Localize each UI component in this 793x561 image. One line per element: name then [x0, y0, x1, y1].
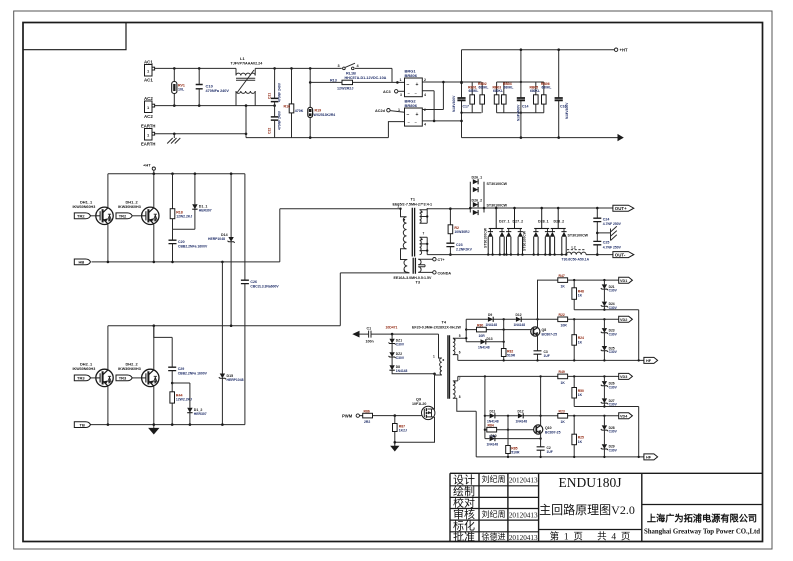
wire output plus rail — [450, 207, 613, 210]
terminal HF2 — [644, 454, 658, 460]
wire AC neutral N — [155, 105, 246, 107]
inductor L2 — [562, 245, 590, 261]
svg-text:C1: C1 — [367, 327, 372, 331]
node C25 bottom — [596, 253, 599, 256]
node bot-corner — [638, 359, 640, 361]
svg-text:IKW30N60H3: IKW30N60H3 — [73, 367, 96, 371]
svg-text:AC3: AC3 — [383, 90, 391, 94]
svg-text:D27_2: D27_2 — [513, 220, 524, 224]
node railB-R24 — [573, 318, 575, 320]
relay RL1B switch — [338, 63, 387, 80]
revision box top-left — [23, 23, 126, 50]
wire Q10 collector up — [540, 376, 542, 425]
wire HT- bottom rail — [462, 137, 618, 139]
node L-C10 — [198, 67, 201, 70]
connector AC1 — [144, 59, 155, 82]
svg-text:+HT: +HT — [143, 163, 151, 168]
svg-text:DH2_1: DH2_1 — [80, 361, 93, 366]
svg-text:1N4148: 1N4148 — [516, 419, 528, 423]
svg-text:1K: 1K — [578, 393, 583, 397]
capacitor C14 column — [517, 50, 529, 138]
node D26 right — [483, 207, 486, 210]
wire BRG plus outputs — [422, 82, 461, 110]
transformer T1 — [393, 197, 433, 260]
bus entry arrow — [352, 331, 359, 338]
resistor R47 — [558, 274, 619, 289]
svg-text:C26: C26 — [250, 280, 257, 284]
svg-text:CGNDA: CGNDA — [438, 272, 452, 276]
svg-text:ENDU180J: ENDU180J — [559, 475, 622, 490]
resistor RB03 — [493, 82, 503, 113]
resistor RB01 — [468, 82, 478, 113]
svg-text:N.MV400V: N.MV400V — [452, 95, 456, 112]
svg-text:CBB2.2NFa 1600V: CBB2.2NFa 1600V — [178, 372, 208, 376]
svg-text:R49: R49 — [559, 370, 565, 374]
svg-text:−: − — [407, 112, 410, 118]
node C24 top — [596, 207, 599, 210]
svg-text:10R: 10R — [561, 324, 568, 328]
svg-text:10F1L20: 10F1L20 — [412, 402, 426, 406]
wire upper HT+ rail — [108, 173, 245, 175]
node bus-R80 — [465, 328, 467, 330]
node bot2-R25 — [573, 456, 575, 458]
resistor R82 — [501, 319, 515, 360]
capacitor C26 — [241, 174, 280, 425]
svg-text:R47: R47 — [559, 274, 565, 278]
terminal OUT+ — [613, 205, 634, 211]
node source-ground — [394, 441, 397, 444]
svg-text:470NF 240V: 470NF 240V — [278, 82, 282, 102]
node midrail2-D27z — [603, 405, 605, 407]
wire RB05-RB06 pair ties — [521, 82, 544, 113]
svg-text:1K: 1K — [578, 294, 583, 298]
node rail-D27_2 — [513, 207, 516, 210]
resistor R48 — [572, 280, 584, 310]
node bus-w5 — [465, 337, 467, 339]
svg-text:1: 1 — [404, 269, 406, 273]
resistor R87 — [393, 416, 408, 443]
wire Q8 emitter down — [537, 336, 539, 361]
svg-text:680KL: 680KL — [479, 85, 489, 89]
svg-text:C30V: C30V — [609, 306, 618, 310]
svg-text:D15: D15 — [227, 374, 234, 378]
svg-text:ST30100CW: ST30100CW — [523, 230, 527, 251]
svg-text:ST30100CW: ST30100CW — [487, 204, 508, 208]
svg-text:C21: C21 — [268, 93, 272, 99]
svg-text:CBB2.2NFa 1600V: CBB2.2NFa 1600V — [178, 245, 208, 249]
node R84-R85 — [507, 429, 509, 431]
node TB-DH2_1 — [107, 423, 110, 426]
node railC-R50 — [573, 375, 575, 377]
capacitor C10 — [196, 68, 230, 105]
svg-text:1N4148: 1N4148 — [487, 442, 499, 446]
svg-text:C20: C20 — [178, 240, 185, 244]
wire N continuation down — [245, 106, 247, 134]
wire AC line L — [155, 67, 236, 69]
svg-text:C30V: C30V — [609, 430, 618, 434]
svg-text:1: 1 — [433, 354, 435, 358]
svg-text:100n: 100n — [366, 340, 374, 344]
svg-text:R19: R19 — [315, 109, 322, 113]
svg-text:2: 2 — [424, 108, 426, 112]
svg-text:+HT: +HT — [620, 48, 628, 53]
wire HB rail — [92, 209, 401, 262]
svg-text:VD3: VD3 — [620, 375, 627, 379]
svg-text:C17: C17 — [463, 105, 469, 109]
ground symbol earth — [167, 134, 180, 144]
wire RB03-RB04 pair ties — [497, 82, 521, 113]
svg-text:R86: R86 — [364, 409, 370, 413]
node D11-D12b — [507, 415, 509, 417]
svg-text:HERP1048: HERP1048 — [227, 378, 244, 382]
svg-text:HER307: HER307 — [194, 412, 207, 416]
wire ch2 input bus — [484, 376, 486, 438]
zener D24 — [601, 289, 618, 310]
svg-text:VD1: VD1 — [620, 279, 627, 283]
svg-text:L2: L2 — [572, 245, 576, 249]
node D12b-Q10 — [539, 415, 541, 417]
svg-text:HHC57A-D1-12VDC-10A: HHC57A-D1-12VDC-10A — [345, 76, 387, 80]
resistor R22 — [558, 313, 619, 328]
svg-text:1N4148: 1N4148 — [486, 323, 498, 327]
svg-text:D28_1: D28_1 — [538, 220, 549, 224]
node HB-DH1_1 — [107, 261, 110, 264]
svg-text:T30.6C50-A50.1A: T30.6C50-A50.1A — [562, 258, 590, 262]
svg-text:EARTH: EARTH — [141, 123, 155, 128]
zener D29z — [601, 430, 618, 457]
resistor R16 — [284, 68, 304, 137]
node railD-D28z — [603, 415, 605, 417]
svg-text:20120413: 20120413 — [509, 511, 538, 519]
diode D12b — [516, 410, 558, 424]
svg-text:10L: 10L — [178, 88, 185, 92]
zener D28z — [601, 416, 618, 434]
node railC-D26z — [603, 375, 605, 377]
terminal VD1 — [619, 277, 633, 283]
zener D27z — [601, 386, 618, 407]
T4 primary — [439, 334, 442, 358]
diode D1_1 — [192, 174, 212, 230]
svg-text:1K: 1K — [578, 440, 583, 444]
connector EARTH — [141, 123, 155, 146]
resistor R50 — [572, 376, 584, 406]
diode D1_2 — [187, 383, 207, 425]
wire L after choke — [255, 68, 392, 82]
svg-text:470NF 240V: 470NF 240V — [278, 110, 282, 130]
capacitor C22 — [268, 102, 282, 138]
capacitor C17 column — [452, 50, 469, 138]
node railC-Q10 — [539, 375, 541, 377]
svg-text:HER307: HER307 — [199, 209, 212, 213]
svg-text:Q9: Q9 — [416, 397, 421, 401]
wire ch1 bottom rail — [458, 359, 644, 361]
svg-text:C30V: C30V — [609, 289, 618, 293]
terminal +HT upper — [143, 163, 155, 174]
svg-text:1UF: 1UF — [547, 450, 553, 454]
node TB-D15 — [221, 423, 224, 426]
node R80-R82 — [503, 328, 505, 330]
svg-text:TJFVP7IAAA02.24: TJFVP7IAAA02.24 — [231, 62, 264, 66]
wire TB bottom rail — [90, 424, 245, 426]
svg-text:2.2NF2KV: 2.2NF2KV — [456, 248, 473, 252]
svg-text:10D471: 10D471 — [386, 326, 398, 330]
transistor DH1_2 — [118, 174, 159, 262]
wire N to BRG2 — [388, 122, 404, 138]
svg-text:1UF: 1UF — [544, 354, 550, 358]
resistor R49 — [558, 370, 619, 385]
node L-RV1 — [173, 67, 176, 70]
svg-text:1: 1 — [400, 78, 402, 82]
wire Q10 emitter down — [540, 434, 542, 457]
svg-text:校对: 校对 — [453, 496, 475, 510]
wire output minus rail — [427, 254, 613, 256]
node rail-DH1_2 — [153, 172, 156, 175]
node rail-D27_1 — [495, 207, 498, 210]
svg-text:6: 6 — [459, 350, 461, 354]
resistor R23 — [558, 410, 619, 425]
node C24-C25 mid — [596, 232, 599, 235]
svg-text:TR3: TR3 — [119, 376, 127, 381]
svg-text:2: 2 — [398, 205, 400, 209]
svg-text:HF: HF — [646, 456, 652, 460]
terminal PWM — [342, 414, 359, 419]
svg-text:DH2_2: DH2_2 — [126, 361, 139, 366]
chassis ground symbol — [597, 226, 617, 240]
zener D26z — [601, 376, 618, 389]
capacitor C20 — [169, 229, 208, 262]
resistor R44 — [170, 383, 192, 425]
node TB-DH2_2 — [153, 423, 156, 426]
wire ch2 rail C — [458, 375, 558, 377]
node bot2-R85 — [507, 456, 509, 458]
node railA-R48 — [573, 279, 575, 281]
svg-text:D26_1: D26_1 — [472, 176, 483, 180]
node C29-R44 — [171, 382, 174, 385]
svg-text:3: 3 — [338, 64, 340, 68]
svg-text:C30V: C30V — [609, 385, 618, 389]
svg-text:PWM: PWM — [342, 414, 353, 419]
svg-text:D9: D9 — [488, 313, 492, 317]
dual diode D28_2 — [550, 208, 589, 255]
node bot-C3 — [536, 359, 538, 361]
node bot-R82 — [503, 359, 505, 361]
svg-text:HB: HB — [79, 260, 85, 265]
node midrail-DH2_2 — [153, 324, 156, 327]
wire R44-D1_2 tie — [172, 382, 190, 384]
title block row labels — [453, 473, 475, 543]
svg-text:EARTH: EARTH — [141, 142, 155, 147]
wire Q8 collector up — [538, 280, 558, 327]
resistor RB05 — [530, 82, 540, 113]
diode D8 — [389, 357, 434, 374]
terminal VD4 — [619, 413, 633, 419]
svg-text:BC807-25: BC807-25 — [545, 430, 561, 434]
terminal +HT — [614, 48, 628, 53]
svg-text:IKW30N60H3: IKW30N60H3 — [118, 205, 141, 209]
svg-text:+: + — [416, 82, 419, 88]
node N-RV1 — [173, 104, 176, 107]
terminal TR2 gate1 — [74, 213, 90, 219]
svg-text:C30V: C30V — [609, 449, 618, 453]
svg-text:BR806: BR806 — [405, 103, 418, 108]
node railA-D21 — [603, 279, 605, 281]
svg-text:刘纪周: 刘纪周 — [482, 509, 506, 519]
wire C29 branch — [154, 326, 172, 338]
wire BRG minus outputs — [422, 91, 461, 121]
node D9-D12 — [503, 318, 505, 320]
svg-text:680KL: 680KL — [469, 89, 479, 93]
svg-text:VD4: VD4 — [620, 415, 628, 419]
node earth-gnd — [173, 133, 176, 136]
diode D9 — [466, 313, 516, 327]
svg-text:BR806: BR806 — [405, 73, 418, 78]
svg-text:D10: D10 — [491, 434, 497, 438]
svg-text:C24: C24 — [603, 218, 610, 222]
svg-text:1K: 1K — [578, 340, 583, 344]
zener DZ2 — [389, 344, 405, 360]
connector AC2 — [144, 96, 155, 119]
svg-text:680KL: 680KL — [542, 85, 552, 89]
svg-text:刘纪周: 刘纪周 — [482, 474, 506, 484]
svg-text:1K2J: 1K2J — [399, 429, 407, 433]
node midrail-D24 — [603, 309, 605, 311]
node L-C21 — [273, 67, 276, 70]
svg-text:TR2: TR2 — [119, 214, 127, 219]
resistor R86 — [360, 409, 422, 424]
ground symbol aux — [391, 442, 398, 450]
svg-text:C22: C22 — [268, 128, 272, 134]
svg-text:D26_2: D26_2 — [472, 198, 483, 202]
node bot2-C2 — [539, 456, 541, 458]
node rail-R18 — [171, 172, 174, 175]
thermistor R19 — [308, 68, 335, 137]
svg-text:IKW30N60H3: IKW30N60H3 — [118, 367, 141, 371]
transformer T4 — [412, 320, 476, 457]
node HB-DH1_2 — [153, 261, 156, 264]
svg-text:OUT-: OUT- — [615, 252, 626, 257]
svg-text:EF20-0.9MH-2X28X2X-0H.2W: EF20-0.9MH-2X28X2X-0H.2W — [412, 325, 462, 329]
node L-R13 — [309, 81, 312, 84]
transistor Q10 — [534, 425, 561, 435]
node TB-R44 — [171, 423, 174, 426]
wire ch2 bottom rail — [476, 456, 644, 458]
svg-text:4.7NF 250V: 4.7NF 250V — [603, 222, 622, 226]
svg-text:C25: C25 — [603, 241, 610, 245]
capacitor C24 — [593, 208, 621, 233]
node bot-D25 — [603, 359, 605, 361]
node rail-D14 — [230, 172, 233, 175]
svg-text:4: 4 — [424, 123, 426, 127]
svg-text:680KL: 680KL — [504, 85, 514, 89]
wire R18-D1_1 tie — [173, 228, 195, 230]
svg-text:20120413: 20120413 — [509, 534, 538, 542]
node rail-D1_1 — [194, 172, 197, 175]
svg-text:审核: 审核 — [453, 507, 475, 521]
svg-text:R23: R23 — [559, 410, 565, 414]
capacitor C25 — [593, 233, 621, 255]
node D10-Q10e — [539, 437, 541, 439]
svg-text:8: 8 — [459, 395, 461, 399]
transistor DH1_1 — [73, 174, 114, 262]
svg-text:EE16A-3.0MH-0.5:1.5V: EE16A-3.0MH-0.5:1.5V — [394, 276, 433, 280]
node TB-D1_2 — [189, 423, 192, 426]
svg-text:徐德进: 徐德进 — [482, 532, 506, 542]
diode D14 — [208, 174, 235, 326]
diode D11 — [485, 410, 518, 424]
node rail-D28_2 — [557, 207, 560, 210]
svg-text:R80: R80 — [477, 323, 483, 327]
svg-text:N.MV400V: N.MV400V — [517, 104, 521, 121]
svg-text:C16: C16 — [560, 105, 566, 109]
dual diode D27_2 — [506, 208, 526, 255]
terminal TR2 gate2 — [116, 213, 132, 219]
resistor RB06 — [541, 82, 551, 113]
svg-text:AC2d: AC2d — [375, 109, 386, 113]
T1 core — [412, 208, 414, 257]
svg-text:1N4148: 1N4148 — [478, 346, 490, 350]
svg-text:HERP1048: HERP1048 — [208, 237, 225, 241]
node bot2-D29z — [603, 456, 605, 458]
svg-text:C29: C29 — [178, 367, 185, 371]
wire EARTH — [155, 134, 389, 138]
svg-text:20120413: 20120413 — [509, 477, 538, 485]
node minus-C17 — [460, 120, 463, 123]
svg-text:10W30RJ: 10W30RJ — [454, 230, 469, 234]
node rail-D28_1 — [540, 207, 543, 210]
resistor R25 — [572, 416, 584, 457]
svg-text:主回路原理图V2.0: 主回路原理图V2.0 — [539, 502, 635, 517]
capacitor C1 — [360, 327, 439, 344]
svg-text:C10: C10 — [206, 83, 214, 88]
terminal HF1 — [644, 357, 658, 363]
svg-text:TB: TB — [80, 422, 85, 427]
svg-text:BC807-25: BC807-25 — [542, 332, 558, 336]
svg-text:D11: D11 — [490, 410, 496, 414]
svg-text:D14: D14 — [221, 233, 228, 237]
terminal VD3 — [619, 373, 633, 379]
svg-text:RL1B: RL1B — [346, 72, 356, 76]
dual diode D27_1 — [484, 208, 510, 255]
svg-text:−: − — [407, 82, 410, 88]
svg-text:WX2513K2R4: WX2513K2R4 — [314, 113, 336, 117]
terminal AC3 — [383, 90, 405, 97]
svg-text:680KL: 680KL — [530, 89, 540, 93]
capacitor C3 — [534, 350, 550, 358]
diode D12 — [514, 313, 558, 327]
node BRG plus tie — [442, 81, 445, 84]
node HB-D15 — [221, 261, 224, 264]
node plus-C17 — [460, 81, 463, 84]
svg-text:上海广为拓浦电源有限公司: 上海广为拓浦电源有限公司 — [647, 513, 757, 524]
wire mid rail ch1 — [574, 310, 639, 361]
node C23 bottom — [449, 253, 452, 256]
capacitor C16 column — [555, 50, 569, 138]
svg-text:AC2: AC2 — [144, 114, 153, 119]
svg-text:D28_2: D28_2 — [554, 220, 565, 224]
arrow HT- off page — [618, 134, 624, 141]
svg-text:4.7NF 250V: 4.7NF 250V — [603, 246, 622, 250]
node bus2-R84 — [484, 429, 486, 431]
svg-text:470K: 470K — [295, 109, 304, 113]
svg-text:ST30100CW: ST30100CW — [484, 227, 488, 248]
terminal AC2d — [375, 108, 405, 113]
T1 secondary bus — [426, 208, 428, 255]
svg-text:IKW30N60H3: IKW30N60H3 — [73, 205, 96, 209]
node railC-branch — [484, 375, 486, 377]
node bot-C16 — [557, 136, 560, 139]
T1 primary winding — [401, 209, 407, 217]
node D13-R82 — [503, 341, 505, 343]
